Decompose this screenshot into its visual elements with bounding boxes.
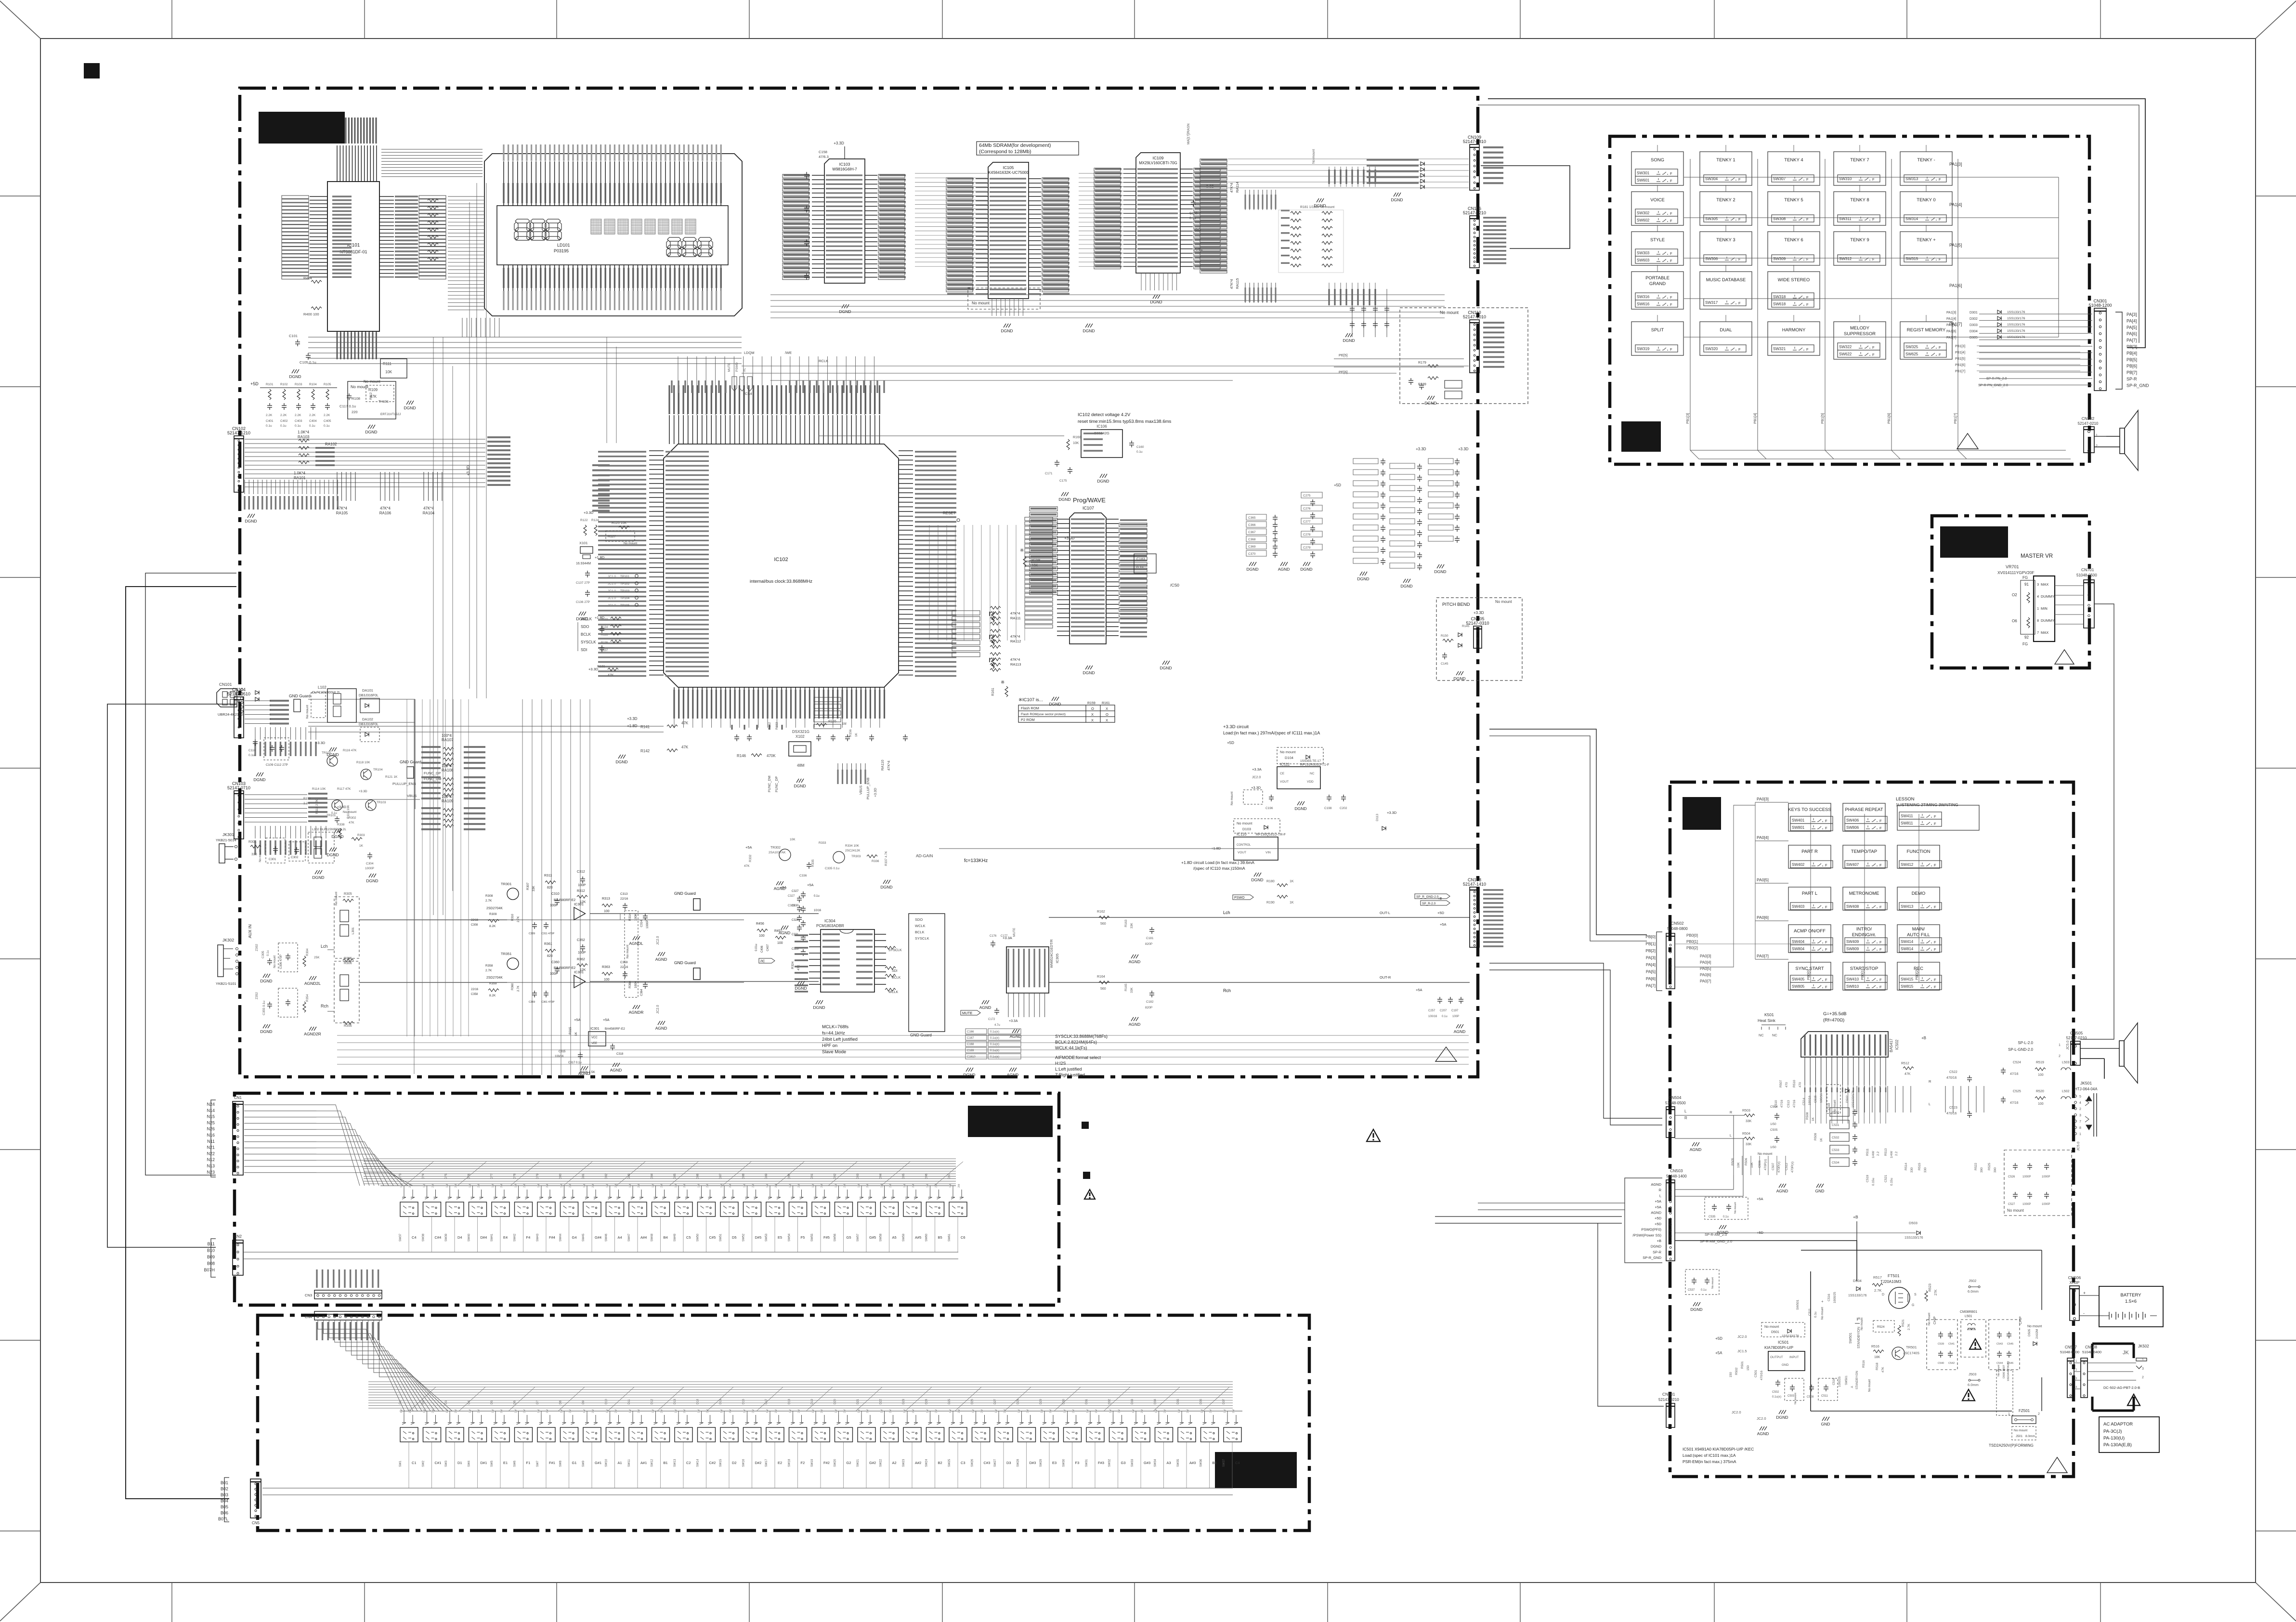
svg-text:B11: B11 <box>208 1242 215 1246</box>
svg-text:D21: D21 <box>857 1399 860 1404</box>
svg-text:SW37: SW37 <box>399 1233 402 1242</box>
svg-text:RCLK: RCLK <box>819 359 828 363</box>
svg-text:RA115: RA115 <box>1235 278 1239 289</box>
C190 cap <box>1191 200 1196 207</box>
svg-text:F3: F3 <box>1075 1461 1080 1465</box>
svg-text:47K*4: 47K*4 <box>423 506 434 510</box>
svg-text:0.1u: 0.1u <box>1189 217 1196 220</box>
panel switch region border <box>1610 136 2089 464</box>
key switch cell SW41 <box>494 1190 506 1199</box>
svg-text:SW322: SW322 <box>1839 345 1852 349</box>
LCD top pin fan S0..C7 <box>504 161 721 206</box>
svg-text:AGND: AGND <box>1651 1211 1661 1215</box>
svg-text:27K: 27K <box>1934 1289 1938 1295</box>
no mount box under IC105 <box>968 288 1040 309</box>
svg-text:PA0[4]: PA0[4] <box>1700 960 1711 965</box>
empty triangle main box bottom right <box>1435 1047 1457 1061</box>
svg-text:WM8524CGEDT/R: WM8524CGEDT/R <box>1050 939 1054 968</box>
svg-text:PCM1803ADBR: PCM1803ADBR <box>816 924 844 928</box>
svg-text:1M: 1M <box>629 1184 632 1188</box>
svg-text:R102: R102 <box>280 383 288 386</box>
svg-text:820: 820 <box>547 955 553 958</box>
horizontal bus below SDRAM row <box>742 366 1469 366</box>
svg-text:R506: R506 <box>1745 1158 1748 1165</box>
svg-text:ERTJ1VT152J: ERTJ1VT152J <box>380 413 401 416</box>
svg-text:NC: NC <box>1772 1033 1777 1037</box>
svg-text:R304: R304 <box>306 948 309 956</box>
svg-text:SW811: SW811 <box>1901 821 1913 825</box>
svg-text:RA102: RA102 <box>325 442 337 446</box>
svg-text:R517: R517 <box>1873 1275 1882 1280</box>
svg-text:PA1[7]: PA1[7] <box>1946 336 1957 340</box>
svg-text:DGND: DGND <box>1251 877 1263 882</box>
key switch cell SW31 <box>1088 1415 1101 1425</box>
svg-text:2M: 2M <box>889 1409 892 1413</box>
svg-text:N21: N21 <box>207 1145 215 1150</box>
svg-text:2M: 2M <box>775 1184 778 1188</box>
svg-text:C352: C352 <box>577 939 585 942</box>
svg-text:47/6.3: 47/6.3 <box>819 155 829 159</box>
svg-text:IC501 X9491A0 KIA78D05PI-U/P /: IC501 X9491A0 KIA78D05PI-U/P /KEC <box>1683 1447 1754 1452</box>
svg-text:2M: 2M <box>1210 1409 1213 1413</box>
svg-text:100: 100 <box>777 942 783 945</box>
svg-text:D2: D2 <box>422 1400 425 1404</box>
svg-text:F: F <box>1939 177 1941 182</box>
panel switch cell SONG SW301 <box>1631 152 1683 185</box>
svg-text:F: F <box>1825 978 1827 982</box>
svg-text:FUNC_DM: FUNC_DM <box>768 776 771 792</box>
svg-text:C364: C364 <box>640 989 643 996</box>
svg-text:MASTER VR: MASTER VR <box>2021 553 2053 559</box>
svg-text:47K: 47K <box>681 721 689 725</box>
svg-text:F: F <box>1825 819 1827 823</box>
svg-text:SW413: SW413 <box>1901 904 1914 909</box>
svg-text:SW814: SW814 <box>1901 947 1914 951</box>
svg-text:RA109: RA109 <box>442 799 454 803</box>
svg-text:DGND: DGND <box>331 834 343 839</box>
svg-text:TENKY 2: TENKY 2 <box>1716 197 1735 203</box>
svg-text:SW316: SW316 <box>1637 295 1650 299</box>
CHIP no-mount cap boxes + L501 <box>1927 1320 1957 1370</box>
svg-text:2M: 2M <box>500 1184 503 1188</box>
svg-text:C506: C506 <box>1758 1160 1761 1168</box>
svg-text:C318: C318 <box>616 1053 624 1056</box>
svg-text:F: F <box>1879 978 1882 982</box>
svg-text:BCLK: BCLK <box>915 930 925 934</box>
svg-text:PSWO(PF0): PSWO(PF0) <box>1641 1228 1661 1232</box>
GND Guard box <box>909 914 945 1032</box>
svg-text:SW52: SW52 <box>743 1233 745 1242</box>
svg-text:1M: 1M <box>652 1184 655 1188</box>
key switch cell SW45 <box>585 1190 598 1199</box>
svg-text:+3.3D: +3.3D <box>588 667 599 671</box>
svg-text:SW33: SW33 <box>1131 1459 1134 1467</box>
C183 0.1u <box>1134 554 1156 573</box>
svg-text:C305: C305 <box>261 951 265 958</box>
key switch cell SW55 <box>814 1190 826 1199</box>
horizontal bus above key cells (lower) <box>400 1411 1242 1412</box>
svg-text:DGND: DGND <box>576 616 588 621</box>
svg-text:+1.8D: +1.8D <box>595 555 605 560</box>
panel2 cell INTRO/ SW409 <box>1843 925 1885 953</box>
svg-text:1000P: 1000P <box>2022 1176 2031 1178</box>
svg-text:OUT-R: OUT-R <box>1380 975 1391 980</box>
svg-text:D29: D29 <box>1040 1399 1043 1404</box>
IC101 LCD driver NT3881DF-01 <box>327 182 379 331</box>
svg-text:0.1u: 0.1u <box>1814 1311 1817 1318</box>
svg-text:C539: C539 <box>1938 1343 1944 1346</box>
svg-text:2M: 2M <box>912 1184 915 1188</box>
long vertical bus lines under CPU <box>522 699 523 1075</box>
svg-text:F: F <box>1934 978 1936 982</box>
svg-text:No mount: No mount <box>624 542 637 545</box>
svg-text:JC2.0: JC2.0 <box>1737 1334 1747 1339</box>
svg-text:2M: 2M <box>455 1409 457 1413</box>
svg-text:R333: R333 <box>819 841 826 845</box>
svg-text:DGND: DGND <box>260 979 272 983</box>
svg-text:R165: R165 <box>1124 983 1128 991</box>
svg-text:R507: R507 <box>1779 1080 1783 1087</box>
svg-text:F: F <box>1825 826 1827 830</box>
bottom channel of main box <box>337 1035 1469 1064</box>
svg-text:F: F <box>1806 302 1809 307</box>
svg-text:C367: C367 <box>1248 531 1256 534</box>
svg-text:CN501: CN501 <box>1662 1392 1675 1397</box>
jack arrows <box>2086 1096 2092 1130</box>
bundle IC101 to LCD labels <box>381 149 483 177</box>
svg-text:2M: 2M <box>478 1409 481 1413</box>
svg-text:No mount: No mount <box>626 945 629 958</box>
svg-text:PB1[7]: PB1[7] <box>1955 370 1965 373</box>
svg-text:L: L <box>1684 1109 1687 1113</box>
vertical channel center-left <box>407 699 469 1036</box>
svg-text:1M: 1M <box>492 1184 495 1188</box>
panel2 cell METRONOME SW408 <box>1843 887 1885 910</box>
svg-text:B08: B08 <box>207 1261 215 1266</box>
D501 no mount <box>1761 1322 1805 1337</box>
svg-text:VBUS: VBUS <box>860 785 863 795</box>
svg-text:+5A: +5A <box>603 1018 610 1022</box>
svg-text:C527: C527 <box>2008 1203 2015 1206</box>
svg-text:5: 5 <box>2079 1095 2081 1099</box>
svg-text:R163: R163 <box>1124 919 1128 927</box>
svg-text:47/16: 47/16 <box>2010 1073 2019 1076</box>
svg-text:AGND: AGND <box>655 957 667 962</box>
svg-text:SW58: SW58 <box>880 1233 883 1242</box>
svg-text:1SS355-TE-17: 1SS355-TE-17 <box>1300 759 1321 763</box>
svg-text:1M: 1M <box>789 1409 792 1413</box>
svg-text:PART L: PART L <box>1802 891 1817 896</box>
svg-text:22/16: 22/16 <box>471 988 479 991</box>
svg-text:MELODY: MELODY <box>1850 326 1870 331</box>
svg-text:C5: C5 <box>686 1235 691 1240</box>
svg-text:+3.3D: +3.3D <box>466 465 470 476</box>
key switch cell SW48 <box>654 1190 666 1199</box>
svg-text:R108: R108 <box>352 396 360 401</box>
svg-text:Slave Mode: Slave Mode <box>822 1049 846 1055</box>
svg-text:2M: 2M <box>432 1409 435 1413</box>
svg-text:F#1: F#1 <box>549 1461 555 1465</box>
key switch cell SW24 <box>928 1415 941 1425</box>
svg-text:PA[4]: PA[4] <box>2126 318 2137 323</box>
svg-text:J501: J501 <box>2016 1435 2022 1438</box>
svg-text:SW32: SW32 <box>1109 1459 1111 1467</box>
svg-text:WCLK: WCLK <box>915 924 926 928</box>
cap column C365-C370 <box>1246 514 1266 520</box>
svg-text:SW601: SW601 <box>1637 178 1650 183</box>
svg-text:22/16: 22/16 <box>620 897 628 901</box>
svg-text:+3.3D: +3.3D <box>584 510 594 515</box>
no-mount R109 47K <box>366 385 394 402</box>
svg-text:SW30: SW30 <box>1063 1459 1066 1467</box>
R404 R400 resistors <box>311 280 322 283</box>
svg-text:X: X <box>1106 706 1108 711</box>
svg-text:KIA78D05PI-U/P: KIA78D05PI-U/P <box>1764 1346 1793 1350</box>
svg-text:SW412: SW412 <box>1901 863 1914 867</box>
svg-text:47K*4: 47K*4 <box>1010 634 1020 639</box>
svg-text:No mount: No mount <box>972 301 990 305</box>
svg-text:D502: D502 <box>1846 1095 1849 1103</box>
svg-text:No mount: No mount <box>1868 1379 1871 1392</box>
svg-text:R337 4.7K: R337 4.7K <box>885 851 888 866</box>
TR351 <box>507 958 519 969</box>
svg-text:PB1[4]: PB1[4] <box>1955 351 1965 354</box>
svg-text:F: F <box>1670 219 1672 223</box>
svg-text:C314: C314 <box>640 920 643 927</box>
svg-text:2M: 2M <box>844 1184 847 1188</box>
big cap banks C223-C250 <box>1353 458 1378 464</box>
svg-text:CN1: CN1 <box>234 1096 242 1100</box>
svg-text:1M: 1M <box>835 1409 838 1413</box>
svg-text:B07L: B07L <box>218 1517 228 1521</box>
svg-text:+3.3D: +3.3D <box>874 788 877 797</box>
CPU IC102 <box>664 444 899 687</box>
svg-text:R145: R145 <box>1462 625 1470 628</box>
svg-text:N11: N11 <box>207 1139 215 1144</box>
X102 crystal DSX321G <box>789 742 811 756</box>
svg-text:D#2: D#2 <box>755 1461 762 1465</box>
svg-text:F: F <box>1738 347 1741 352</box>
svg-text:Load:(in fact max.) 297mA/(spe: Load:(in fact max.) 297mA/(spec of IC111… <box>1223 731 1320 735</box>
svg-text:VOUT: VOUT <box>1280 780 1289 784</box>
capacitor bank upper C206.. <box>1329 167 1375 187</box>
svg-text:1000/25: 1000/25 <box>1833 1292 1837 1303</box>
svg-text:DUAL: DUAL <box>1720 327 1732 333</box>
svg-text:FUNC_DP: FUNC_DP <box>424 771 441 775</box>
svg-text:100K: 100K <box>634 913 638 921</box>
svg-text:SW57: SW57 <box>857 1233 860 1242</box>
svg-text:R312: R312 <box>577 889 585 893</box>
svg-text:D37: D37 <box>1223 1399 1226 1404</box>
no mount 1000P box <box>2004 1150 2072 1216</box>
panel switch cell TENKY 9 SW312 <box>1834 232 1886 265</box>
svg-text:R133: R133 <box>601 618 608 621</box>
LCD bottom pin fan <box>504 265 721 291</box>
svg-text:1000P: 1000P <box>365 867 374 870</box>
svg-text:R114 10K: R114 10K <box>312 787 326 791</box>
svg-text:SW54: SW54 <box>788 1233 791 1242</box>
svg-text:R525: R525 <box>1988 1163 1991 1170</box>
svg-text:R160: R160 <box>1073 436 1081 439</box>
R131 47K <box>608 668 618 671</box>
C309 C311 C361 C369 caps <box>532 922 537 929</box>
svg-text:N22: N22 <box>207 1151 215 1156</box>
svg-text:C545: C545 <box>2007 1343 2013 1346</box>
svg-text:2: 2 <box>2038 1413 2040 1416</box>
svg-text:A5: A5 <box>892 1235 897 1240</box>
svg-text:E2: E2 <box>778 1461 782 1465</box>
svg-text:A: A <box>1851 1386 1854 1388</box>
svg-text:RA106: RA106 <box>379 511 391 515</box>
svg-text:C542: C542 <box>1948 1362 1955 1365</box>
vertical drops bus->cells <box>404 1186 404 1190</box>
svg-text:SW405: SW405 <box>1792 977 1805 981</box>
capacitor bank lower C209..C222 <box>1329 283 1375 305</box>
IC101 bottom pins <box>337 331 376 356</box>
svg-text:F: F <box>1738 301 1741 305</box>
svg-text:2M: 2M <box>798 1184 801 1188</box>
D103 no-mount + IC110 <box>1234 819 1280 833</box>
svg-text:DGND: DGND <box>1776 1415 1788 1420</box>
svg-text:C136 27P: C136 27P <box>576 601 590 604</box>
svg-text:BA4580RF-E2: BA4580RF-E2 <box>554 899 575 902</box>
svg-text:DGND: DGND <box>1300 567 1312 572</box>
svg-text:+3.3D: +3.3D <box>834 141 844 145</box>
svg-text:R307: R307 <box>526 882 530 890</box>
svg-text:3: 3 <box>2079 1114 2081 1117</box>
svg-text:JC2.0: JC2.0 <box>1757 1416 1766 1421</box>
svg-text:PHRASE REPEAT: PHRASE REPEAT <box>1845 807 1883 812</box>
svg-text:1M: 1M <box>469 1409 472 1413</box>
svg-text:D33: D33 <box>1131 1399 1134 1404</box>
svg-text:100/16: 100/16 <box>1428 1015 1437 1018</box>
svg-text:R: R <box>1659 1188 1662 1192</box>
panel switch cell TENKY 8 SW311 <box>1834 192 1886 225</box>
svg-text:F: F <box>1825 947 1827 952</box>
svg-text:DGND: DGND <box>1434 569 1446 574</box>
svg-text:2M: 2M <box>569 1409 572 1413</box>
IC102 left pins + labels <box>649 451 664 675</box>
svg-text:2M: 2M <box>546 1184 549 1188</box>
empty triangle box D <box>1957 433 1978 449</box>
svg-text:SW815: SW815 <box>1901 984 1914 989</box>
diodes DA101 DA102 <box>255 691 259 694</box>
svg-text:D27: D27 <box>994 1399 997 1404</box>
svg-text:100/16: 100/16 <box>1808 1096 1812 1105</box>
svg-text:2M: 2M <box>500 1409 503 1413</box>
svg-text:O: O <box>1106 712 1109 717</box>
svg-text:AGND2R: AGND2R <box>304 1032 321 1036</box>
svg-text:C369: C369 <box>529 1001 535 1004</box>
svg-text:SP-R_GND: SP-R_GND <box>1643 1256 1661 1260</box>
svg-text:R306: R306 <box>344 962 352 965</box>
svg-text:B5: B5 <box>938 1235 942 1240</box>
svg-text:R313: R313 <box>602 897 610 901</box>
svg-text:470/16: 470/16 <box>1946 1076 1957 1080</box>
svg-text:RA107: RA107 <box>442 738 454 742</box>
svg-text:1SS133/176: 1SS133/176 <box>2007 317 2025 320</box>
svg-text:R355: R355 <box>344 957 352 960</box>
svg-text:DGND: DGND <box>1343 338 1355 343</box>
key switch cell SW23 <box>905 1415 918 1425</box>
LCD top net labels SEG[0..39] rotated <box>504 144 721 161</box>
svg-text:1M: 1M <box>515 1184 518 1188</box>
svg-text:C532: C532 <box>1832 1136 1839 1139</box>
key switch cell SW28 <box>1020 1415 1032 1425</box>
svg-text:No mount: No mount <box>1440 310 1459 315</box>
svg-text:F: F <box>1934 947 1936 952</box>
R516 18K R515b <box>1873 1350 1884 1353</box>
svg-text:SW804: SW804 <box>1792 947 1805 951</box>
svg-text:1000/25: 1000/25 <box>1839 1376 1841 1387</box>
svg-text:10EDA40-TA1B2: 10EDA40-TA1B2 <box>2007 1361 2010 1381</box>
caps cluster left of CN108 <box>1437 997 1442 1004</box>
svg-text:SW7: SW7 <box>536 1460 539 1467</box>
svg-text:AGND: AGND <box>979 1005 991 1010</box>
svg-text:R324: R324 <box>791 961 795 969</box>
svg-text:+3.3D: +3.3D <box>1251 785 1261 790</box>
svg-text:DGND: DGND <box>794 784 806 788</box>
svg-text:L: L <box>1659 1193 1661 1198</box>
C110 C109 C112 caps <box>253 739 258 746</box>
svg-text:C336: C336 <box>799 874 807 877</box>
svg-text:1M: 1M <box>1041 1409 1044 1413</box>
svg-text:JC1.0: JC1.0 <box>608 597 616 600</box>
svg-text:AUTO FILL: AUTO FILL <box>1907 932 1930 938</box>
svg-text:C1: C1 <box>412 1461 417 1465</box>
C166-C170 cap rows <box>965 1029 987 1034</box>
svg-text:52147-1210: 52147-1210 <box>227 431 250 435</box>
svg-text:Lch: Lch <box>1223 910 1230 915</box>
svg-text:CN507: CN507 <box>2065 1345 2077 1349</box>
svg-text:C518: C518 <box>1828 1103 1831 1110</box>
R111 10K <box>380 359 407 378</box>
svg-text:C145: C145 <box>1441 662 1448 666</box>
svg-text:No mount: No mount <box>1711 1277 1714 1289</box>
box F power vertical stubs <box>1734 1156 1786 1175</box>
svg-text:2M: 2M <box>1187 1409 1189 1413</box>
svg-text:D505: D505 <box>2028 1329 2031 1336</box>
svg-text:C304: C304 <box>366 862 374 865</box>
svg-text:51048-0800: 51048-0800 <box>1667 927 1688 931</box>
svg-text:C522: C522 <box>1949 1071 1957 1074</box>
svg-text:IC103: IC103 <box>839 162 850 167</box>
svg-text:B06: B06 <box>221 1511 228 1516</box>
svg-text:2M: 2M <box>706 1184 709 1188</box>
svg-text:INTRO/: INTRO/ <box>1856 927 1872 932</box>
svg-text:PULLUP_ENB: PULLUP_ENB <box>392 782 416 786</box>
svg-text:0.1u(±): 0.1u(±) <box>990 1043 999 1046</box>
svg-text:1: 1 <box>2096 434 2098 437</box>
svg-text:2M: 2M <box>1049 1409 1052 1413</box>
svg-text:X102: X102 <box>796 734 805 739</box>
svg-text:SW8: SW8 <box>560 1460 562 1467</box>
svg-text:PB0[2]: PB0[2] <box>1915 969 1919 980</box>
region label blocks (redacted) <box>259 112 345 144</box>
svg-text:JK502: JK502 <box>2138 1344 2149 1348</box>
svg-text:ENDING/rit.: ENDING/rit. <box>1852 932 1876 938</box>
connector CN301 51048-1200 <box>2094 308 2106 391</box>
svg-text:R190: R190 <box>1266 901 1275 904</box>
svg-text:R179: R179 <box>1418 361 1426 365</box>
svg-text:SP-R: SP-R <box>2126 377 2137 381</box>
svg-text:2M: 2M <box>752 1184 755 1188</box>
svg-text:2.7K: 2.7K <box>517 986 520 992</box>
svg-text:F2: F2 <box>801 1461 805 1465</box>
key switch cell SW4 <box>471 1415 483 1425</box>
svg-text:100P: 100P <box>550 972 558 976</box>
svg-text:+5A: +5A <box>1757 1197 1763 1201</box>
